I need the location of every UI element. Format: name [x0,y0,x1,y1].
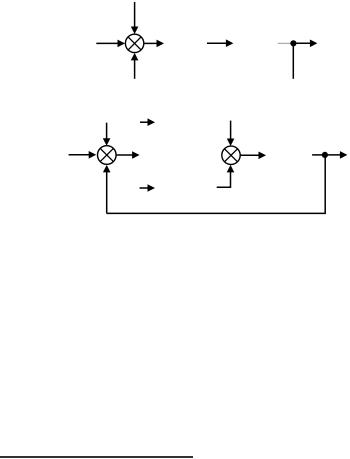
summing junction S2 [98,146,117,165]
wire: output arrow of S2 [116,151,139,159]
wire: feedback riser arrow into S2 bottom [103,165,111,214]
wire: output arrow from node D2 [325,151,348,159]
wire: top input arrow into summing junction S2 [103,123,111,146]
wire: top input arrow into summing junction S1 [131,2,139,34]
arrow: intermediate signal arrow (top row middle) [207,39,233,47]
wire: feedback path from D2 down and across [107,155,326,214]
summing junction S1 [125,34,143,52]
arrow: small arrow below-right of S2 [140,184,156,192]
wire: branch line down from node D1 [292,43,294,79]
arrow: small arrow above-right of S2 [140,118,155,126]
wire: output arrow from node D1 [293,40,317,48]
summing junction S3 [222,146,240,164]
node D2 branch dot [322,152,328,158]
wire: left input arrow into summing junction S2 [69,151,97,159]
wire: stub into node D2 [312,154,325,156]
wire: left input arrow into summing junction S1 [96,40,125,48]
wire: bottom input arrow into summing junction S1 [131,53,139,79]
node D1 branch dot [290,40,296,46]
wire: top input arrow into summing junction S3 [227,121,235,146]
wire: faint stub into node D1 [278,42,294,44]
footnote rule [0,456,193,458]
wire: output arrow of S3 [240,152,266,160]
wire: output arrow of S1 [144,40,164,48]
wire: L-shaped bottom input arrow into S3 [217,165,235,187]
